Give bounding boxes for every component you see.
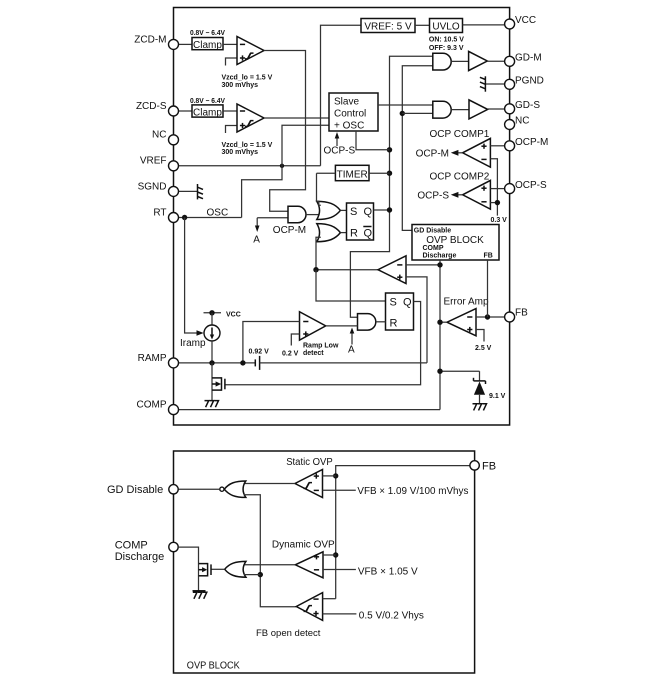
svg-text:ZCD-S: ZCD-S bbox=[136, 101, 167, 112]
svg-text:Q: Q bbox=[364, 228, 373, 240]
svg-text:R: R bbox=[390, 318, 398, 330]
svg-text:Dynamic OVP: Dynamic OVP bbox=[272, 540, 335, 551]
svg-text:0.92 V: 0.92 V bbox=[249, 348, 270, 355]
svg-text:0.8V − 6.4V: 0.8V − 6.4V bbox=[190, 98, 225, 105]
svg-text:Discharge: Discharge bbox=[115, 551, 165, 563]
svg-text:R: R bbox=[350, 228, 358, 240]
svg-text:Q: Q bbox=[364, 206, 373, 218]
svg-text:Ramp Low: Ramp Low bbox=[303, 343, 339, 350]
svg-text:Discharge: Discharge bbox=[423, 253, 457, 260]
svg-text:VFB × 1.05 V: VFB × 1.05 V bbox=[358, 567, 418, 578]
svg-text:OSC: OSC bbox=[207, 208, 229, 219]
svg-text:300 mVhys: 300 mVhys bbox=[222, 82, 259, 89]
svg-text:A: A bbox=[253, 235, 260, 246]
svg-text:Slave: Slave bbox=[334, 97, 359, 108]
svg-text:Iramp: Iramp bbox=[180, 338, 206, 349]
svg-text:FB: FB bbox=[515, 307, 528, 318]
svg-text:Error Amp: Error Amp bbox=[444, 297, 489, 308]
svg-text:OCP-M: OCP-M bbox=[273, 225, 306, 236]
svg-text:FB: FB bbox=[484, 253, 493, 260]
svg-text:UVLO: UVLO bbox=[432, 22, 459, 33]
svg-text:GD Disable: GD Disable bbox=[107, 484, 163, 496]
svg-text:Vzcd_lo = 1.5 V: Vzcd_lo = 1.5 V bbox=[222, 75, 273, 82]
svg-text:COMP: COMP bbox=[423, 245, 444, 252]
svg-text:2.5 V: 2.5 V bbox=[475, 345, 492, 352]
svg-text:0.5 V/0.2 Vhys: 0.5 V/0.2 Vhys bbox=[359, 610, 424, 621]
svg-text:Control: Control bbox=[334, 109, 366, 120]
svg-text:VREF: 5 V: VREF: 5 V bbox=[364, 22, 412, 33]
svg-text:ZCD-M: ZCD-M bbox=[134, 34, 166, 45]
svg-text:SGND: SGND bbox=[138, 181, 167, 192]
svg-text:+ OSC: + OSC bbox=[334, 121, 364, 132]
svg-text:0.8V − 6.4V: 0.8V − 6.4V bbox=[190, 30, 225, 37]
svg-text:OCP-S: OCP-S bbox=[417, 191, 449, 202]
svg-text:Vzcd_lo = 1.5 V: Vzcd_lo = 1.5 V bbox=[222, 142, 273, 149]
svg-text:OCP COMP1: OCP COMP1 bbox=[430, 129, 490, 140]
svg-text:FB: FB bbox=[482, 461, 496, 473]
svg-text:GD-S: GD-S bbox=[515, 100, 540, 111]
svg-text:Q: Q bbox=[403, 297, 412, 309]
svg-text:TIMER: TIMER bbox=[337, 169, 368, 180]
svg-text:VFB × 1.09 V/100 mVhys: VFB × 1.09 V/100 mVhys bbox=[357, 486, 468, 497]
svg-text:OCP-S: OCP-S bbox=[515, 180, 547, 191]
svg-text:COMP: COMP bbox=[115, 540, 148, 552]
svg-text:OCP-M: OCP-M bbox=[515, 137, 548, 148]
svg-text:S: S bbox=[350, 206, 357, 218]
svg-text:S: S bbox=[390, 297, 397, 309]
svg-text:NC: NC bbox=[515, 116, 529, 127]
svg-text:0.2 V: 0.2 V bbox=[282, 350, 299, 357]
svg-text:OFF: 9.3 V: OFF: 9.3 V bbox=[429, 45, 464, 52]
svg-text:NC: NC bbox=[152, 130, 166, 141]
svg-text:ON: 10.5 V: ON: 10.5 V bbox=[429, 36, 464, 43]
svg-text:GD-M: GD-M bbox=[515, 53, 542, 64]
svg-text:VCC: VCC bbox=[515, 15, 536, 26]
svg-text:Clamp: Clamp bbox=[193, 107, 222, 118]
svg-text:OVP BLOCK: OVP BLOCK bbox=[187, 661, 240, 672]
svg-text:OCP-S: OCP-S bbox=[324, 146, 356, 157]
svg-text:300 mVhys: 300 mVhys bbox=[222, 149, 259, 156]
svg-text:RT: RT bbox=[153, 207, 166, 218]
svg-text:0.3 V: 0.3 V bbox=[491, 217, 508, 224]
svg-text:COMP: COMP bbox=[137, 400, 167, 411]
svg-text:detect: detect bbox=[303, 350, 324, 357]
svg-text:Static OVP: Static OVP bbox=[286, 457, 333, 468]
svg-text:RAMP: RAMP bbox=[138, 353, 167, 364]
svg-text:GD Disable: GD Disable bbox=[414, 228, 451, 235]
svg-text:VREF: VREF bbox=[140, 156, 167, 167]
svg-text:OCP-M: OCP-M bbox=[416, 149, 449, 160]
svg-text:Clamp: Clamp bbox=[193, 40, 222, 51]
svg-text:A: A bbox=[348, 345, 355, 356]
svg-text:9.1 V: 9.1 V bbox=[489, 393, 506, 400]
svg-text:FB open detect: FB open detect bbox=[256, 628, 321, 639]
svg-text:PGND: PGND bbox=[515, 76, 544, 87]
svg-text:OCP COMP2: OCP COMP2 bbox=[430, 171, 490, 182]
svg-text:VCC: VCC bbox=[226, 312, 241, 319]
